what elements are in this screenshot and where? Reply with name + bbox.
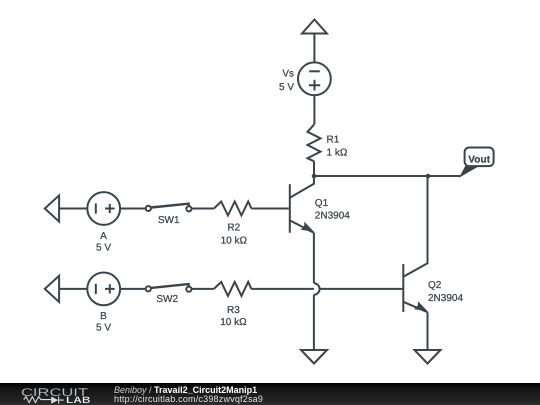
svg-text:5 V: 5 V — [96, 242, 111, 253]
transistor Q2 2N3904 — [403, 176, 427, 312]
switch SW2 — [146, 284, 192, 292]
svg-text:Vs: Vs — [282, 69, 294, 80]
wire R2 to Q1 base — [251, 208, 288, 210]
wire flag to source A — [59, 208, 87, 210]
ground (Q2 emitter) — [415, 350, 441, 364]
node flag B (left triangle) — [45, 276, 59, 302]
svg-text:B: B — [100, 311, 107, 322]
svg-text:10 kΩ: 10 kΩ — [220, 317, 247, 328]
svg-text:LAB: LAB — [66, 395, 91, 405]
junction node R1/Q1 collector — [312, 174, 317, 179]
svg-text:Vout: Vout — [468, 155, 490, 166]
wire Vs to R1 — [313, 95, 315, 125]
svg-text:SW2: SW2 — [156, 294, 178, 305]
svg-text:R3: R3 — [227, 305, 240, 316]
footer bar — [0, 383, 540, 405]
wire source B to SW2 — [120, 288, 146, 290]
svg-text:Q1: Q1 — [315, 198, 329, 209]
voltage source A — [87, 192, 120, 225]
svg-text:2N3904: 2N3904 — [315, 211, 350, 222]
wire top rail to Vout — [314, 175, 460, 177]
svg-text:Q2: Q2 — [428, 280, 442, 291]
voltage source B — [87, 273, 120, 306]
resistor R2 — [214, 202, 252, 216]
svg-text:5 V: 5 V — [279, 82, 294, 93]
resistor R1 — [308, 125, 321, 162]
footer credit line — [114, 385, 257, 395]
voltage source Vs — [298, 62, 331, 95]
wire flag to source B — [59, 288, 87, 290]
svg-text:10 kΩ: 10 kΩ — [221, 235, 248, 246]
svg-text:R2: R2 — [227, 222, 240, 233]
junction node Q2 collector — [426, 174, 431, 179]
svg-text:2N3904: 2N3904 — [428, 293, 463, 304]
wire Q1 emitter to ground (lower segment) — [313, 295, 315, 350]
svg-text:5 V: 5 V — [96, 323, 111, 334]
wire R3 to Q2 base — [251, 288, 403, 290]
switch SW1 — [146, 204, 192, 212]
wire hop over row B (no connection) — [314, 283, 320, 294]
transistor Q1 2N3904 — [290, 176, 314, 233]
svg-text:R1: R1 — [327, 134, 340, 145]
node flag A (left triangle) — [45, 195, 59, 221]
footer url line — [114, 394, 263, 404]
svg-text:SW1: SW1 — [158, 215, 180, 226]
node flag Vout box — [465, 148, 494, 167]
wire SW1 to R2 — [192, 208, 214, 210]
resistor R3 — [214, 282, 252, 296]
svg-text:1 kΩ: 1 kΩ — [327, 148, 348, 159]
wire source A to SW1 — [120, 208, 146, 210]
wire top flag to Vs — [313, 34, 315, 63]
wire Q2 emitter to ground — [427, 312, 429, 350]
wire R1 to node — [313, 161, 315, 176]
svg-text:A: A — [100, 231, 107, 242]
wire SW2 to R3 — [192, 288, 214, 290]
node flag Vout pointer — [460, 167, 477, 177]
CircuitLab logo — [0, 383, 100, 405]
ground (Q1 emitter) — [301, 350, 327, 364]
node flag VS top (up triangle) — [302, 20, 327, 34]
wire Q1 emitter down (upper segment) — [313, 233, 315, 283]
